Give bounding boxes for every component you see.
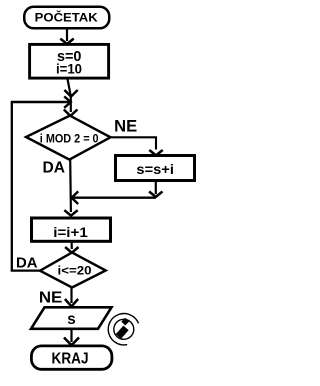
svg-text:s=s+i: s=s+i [136,161,174,177]
wire terminal to box1 [60,30,73,45]
svg-text:i=10: i=10 [56,61,82,77]
terminal KRAJ [31,346,112,369]
wire diamond1 bottom through junction2 to box3 [64,160,77,216]
svg-text:KRAJ: KRAJ [52,350,89,367]
process box s=s+i [116,156,195,181]
wire NE branch to box2 [111,137,163,155]
process box i=i+1 [32,218,111,241]
svg-text:i<=20: i<=20 [58,265,92,277]
wire box3 to diamond2 [65,242,78,253]
terminal POCETAK [24,7,109,29]
svg-text:i=i+1: i=i+1 [53,224,88,240]
wire diamond2 to output [65,288,78,307]
wire box1 to junction1 [64,79,77,97]
loop wire DA branch back to junction top [12,102,40,271]
process box s=0 i=10 [30,44,109,78]
decision diamond1 i MOD 2 = 0 [26,116,111,160]
svg-text:NE: NE [39,289,63,306]
svg-text:POČETAK: POČETAK [35,9,98,24]
logo icon circle [108,314,138,345]
svg-text:NE: NE [114,117,137,135]
output parallelogram s [31,307,112,329]
decision diamond2 i<=20 [40,253,106,288]
svg-text:DA: DA [16,254,38,271]
svg-text:i MOD 2 = 0: i MOD 2 = 0 [40,134,99,146]
svg-text:DA: DA [42,160,65,177]
wire output to KRAJ [64,329,79,346]
svg-text:s: s [67,311,76,328]
junction line 2 [72,191,156,204]
wire box2 to junction2 [149,182,162,197]
junction line top [11,96,71,107]
wire junction1 to diamond1 [64,94,78,116]
